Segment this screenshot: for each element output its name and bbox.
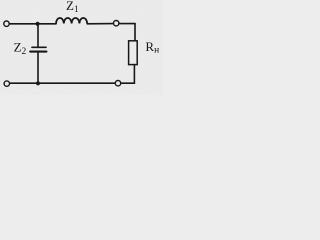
capacitor Z2 top plate (32, 46, 46, 48)
paper grain (0, 0, 1, 1)
wire top-middle horizontal (87, 23, 113, 25)
wire top-right horizontal (119, 23, 135, 25)
node terminal top (open circle) (114, 21, 119, 26)
terminal (input, bottom-left) (4, 81, 9, 86)
wire right vertical to resistor (134, 24, 136, 41)
resistor Rn body (129, 41, 138, 65)
inductor Z1 coil (56, 18, 87, 24)
wire capacitor bottom lead (37, 51, 39, 83)
node junction bottom (dot) (36, 81, 40, 85)
wire resistor bottom lead (133, 65, 135, 84)
node junction top (dot) (36, 22, 40, 26)
capacitor Z2 bottom plate (30, 51, 46, 53)
terminal (input, top-left) (4, 21, 9, 26)
wire bottom horizontal (10, 82, 134, 84)
node terminal bottom (open circle) (115, 81, 120, 86)
wire top-left horizontal (10, 23, 56, 25)
background paper (0, 0, 163, 95)
wire capacitor top lead (37, 24, 39, 48)
